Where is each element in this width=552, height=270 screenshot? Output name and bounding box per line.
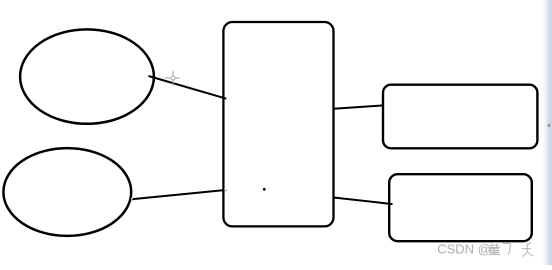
- scrollbar handle mark: [548, 124, 551, 127]
- watermark char 3 (long): [522, 242, 534, 257]
- svg-text:CSDN @: CSDN @: [437, 242, 491, 257]
- rounded rectangle R2 (top-right): [383, 85, 537, 149]
- watermark char 2 (factory): [503, 244, 511, 255]
- connector line L1 (O1 to R1): [149, 76, 227, 99]
- connector line L4 (R1 to R3): [334, 198, 393, 205]
- ellipse O1 (top-left): [20, 29, 154, 123]
- connector line L2 (O2 to R1): [132, 190, 227, 199]
- L2 endpoint dot left: [131, 198, 133, 200]
- L2 endpoint dot right: [224, 189, 226, 191]
- rounded rectangle R3 (bottom-right): [389, 174, 532, 241]
- window edge strip (right): [542, 0, 552, 265]
- watermark char 1 (dong): [488, 244, 500, 255]
- crosshair cursor: [165, 71, 180, 86]
- connector line L3 (R1 to R2): [334, 105, 383, 108]
- ellipse O2 (bottom-left): [3, 148, 131, 236]
- period dot inside R1: [263, 188, 266, 191]
- rounded rectangle R1 (central): [223, 22, 333, 226]
